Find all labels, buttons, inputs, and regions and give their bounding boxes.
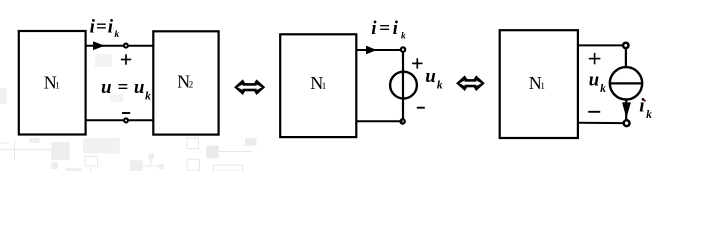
subcircuit N2 (left diagram)	[153, 31, 218, 134]
plus sign (right diagram)	[589, 53, 601, 64]
minus sign (right diagram)	[588, 111, 600, 113]
wire vertical through source	[402, 50, 404, 122]
stray dot artifact	[644, 100, 646, 102]
terminal node top (right)	[623, 43, 628, 48]
subcircuit N1 (left diagram)	[19, 31, 86, 135]
wire from node to source	[625, 48, 627, 69]
wire top (middle diagram)	[356, 49, 403, 51]
equivalence arrow 2	[456, 75, 485, 91]
equivalence arrow 1	[234, 79, 265, 95]
minus sign (middle diagram)	[417, 107, 425, 109]
subcircuit N1 (middle diagram)	[280, 34, 356, 137]
wire from source to bottom node	[625, 99, 627, 120]
wire top (right diagram)	[578, 44, 626, 46]
current source ik (circle with bar)	[610, 67, 642, 99]
current direction arrow	[93, 41, 105, 50]
terminal node b (open circle, bottom)	[124, 118, 128, 122]
plus sign (middle diagram)	[412, 58, 422, 68]
terminal node bottom (middle)	[400, 119, 404, 123]
current direction arrow down	[622, 102, 631, 118]
terminal node top (middle)	[401, 47, 405, 51]
current direction arrow (middle)	[366, 46, 377, 55]
voltage source uk (circle)	[390, 72, 417, 99]
wire bottom (N1 to N2)	[86, 119, 154, 121]
terminal node a (open circle, top)	[124, 44, 128, 48]
wire top (N1 to N2)	[86, 45, 154, 47]
wire bottom (middle diagram)	[356, 120, 402, 122]
minus sign (left diagram)	[122, 112, 130, 114]
subcircuit N1 (right diagram)	[500, 30, 578, 138]
terminal node bottom (right)	[624, 120, 630, 126]
plus sign (left diagram)	[121, 54, 131, 64]
wire bottom (right diagram)	[578, 122, 624, 124]
